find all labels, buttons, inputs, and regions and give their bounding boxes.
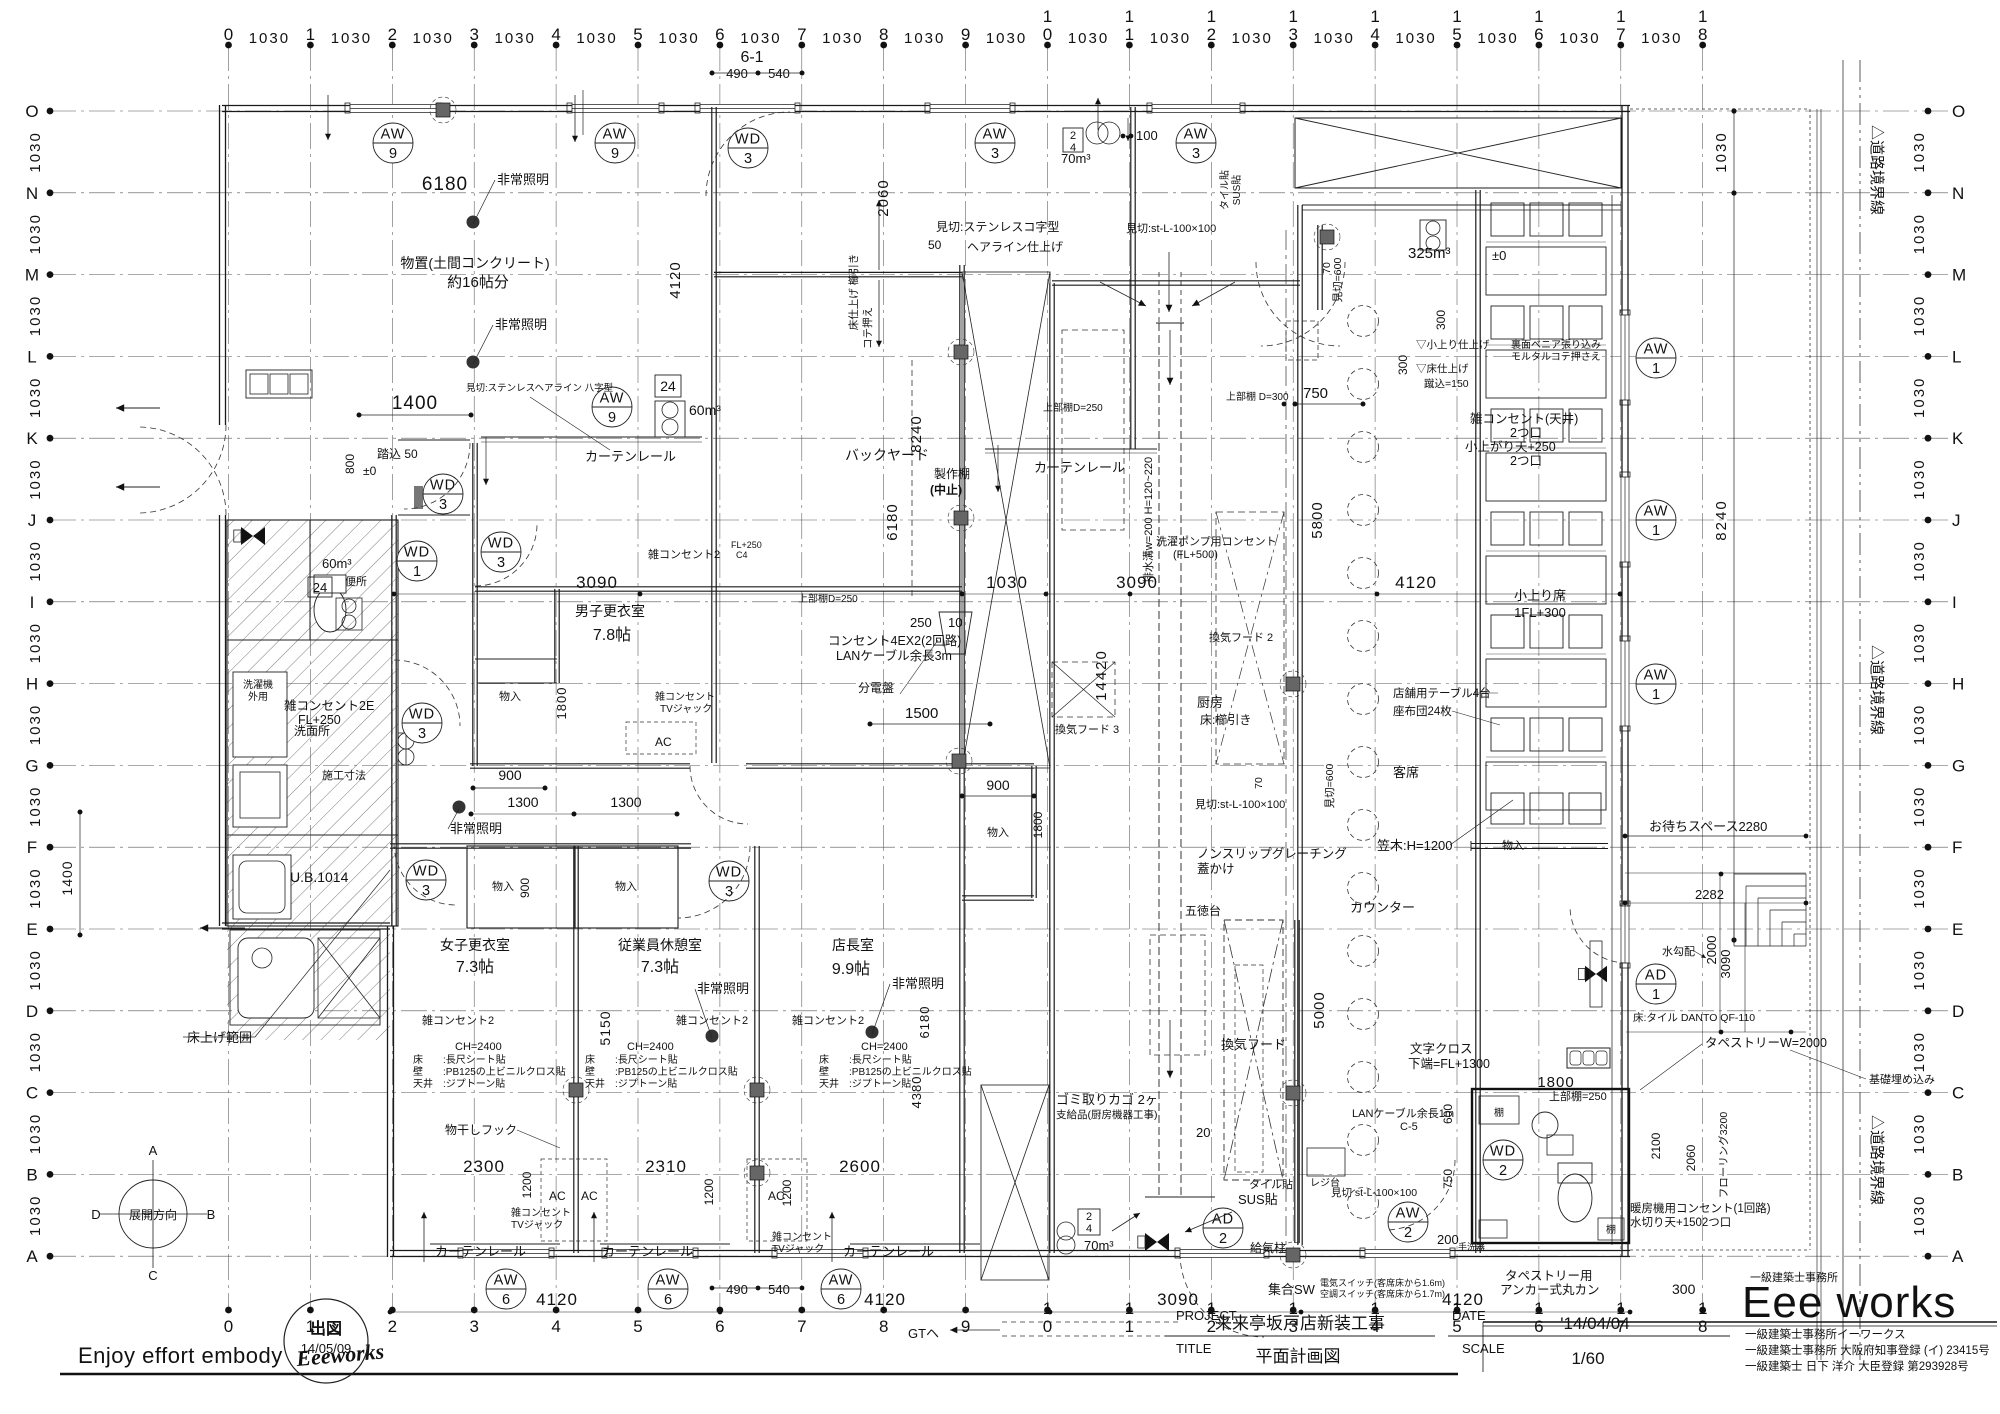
展開方向 compass	[91, 1143, 215, 1283]
svg-text:4120: 4120	[536, 1290, 578, 1309]
svg-text:4380: 4380	[909, 1076, 924, 1109]
footer left: Enjoy effort embody + stamp	[60, 1299, 1458, 1383]
svg-text:2: 2	[1070, 130, 1076, 142]
svg-text:フローリング3200: フローリング3200	[1717, 1112, 1730, 1199]
svg-text:4120: 4120	[1442, 1290, 1484, 1309]
svg-text:250: 250	[910, 615, 932, 630]
interior walls	[390, 107, 1480, 1253]
svg-text:雑コンセント(天井): 雑コンセント(天井)	[1470, 411, 1578, 426]
svg-text:1030: 1030	[986, 573, 1028, 592]
svg-text::ジプトーン貼: :ジプトーン貼	[443, 1077, 505, 1090]
svg-text:1030: 1030	[249, 30, 290, 47]
symbol AW9	[595, 123, 635, 163]
svg-text:2600: 2600	[839, 1157, 881, 1176]
svg-text:2310: 2310	[645, 1157, 687, 1176]
svg-text:1030: 1030	[413, 30, 454, 47]
svg-text:1200: 1200	[702, 1178, 716, 1205]
svg-text:8240: 8240	[908, 415, 925, 452]
svg-text:0: 0	[1043, 25, 1052, 44]
svg-text:WD: WD	[488, 536, 514, 552]
svg-text:AW: AW	[656, 1273, 681, 1289]
vent circles washroom wall	[398, 733, 414, 749]
svg-text:3: 3	[418, 726, 426, 742]
svg-text:6: 6	[1534, 25, 1543, 44]
svg-text:O: O	[1952, 102, 1965, 121]
svg-text:上部棚D=250: 上部棚D=250	[1043, 401, 1103, 414]
symbol WD3	[423, 474, 463, 514]
svg-text::PB125の上ビニルクロス貼: :PB125の上ビニルクロス貼	[615, 1065, 738, 1078]
svg-text:1030: 1030	[27, 867, 44, 908]
svg-text:床: 床	[413, 1053, 423, 1066]
svg-text:来来亭坂戸店新装工事: 来来亭坂戸店新装工事	[1215, 1314, 1385, 1333]
svg-text:14420: 14420	[1093, 649, 1110, 701]
svg-text::長尺シート貼: :長尺シート貼	[615, 1053, 678, 1066]
svg-text:見切=600: 見切=600	[1332, 258, 1344, 303]
svg-text:1030: 1030	[1641, 30, 1682, 47]
svg-text:1030: 1030	[27, 704, 44, 745]
svg-text:6180: 6180	[917, 1006, 932, 1039]
symbol WD3	[406, 860, 446, 900]
entrance top right with X canopy	[1100, 118, 1621, 808]
svg-text:1: 1	[306, 25, 315, 44]
svg-text:従業員休憩室: 従業員休憩室	[618, 937, 702, 953]
svg-text:100: 100	[1136, 128, 1158, 143]
svg-text:1500: 1500	[905, 705, 938, 722]
svg-text::ジプトーン貼: :ジプトーン貼	[849, 1077, 911, 1090]
svg-text:20: 20	[1196, 1125, 1210, 1140]
svg-text:1FL+300: 1FL+300	[1514, 605, 1566, 620]
svg-text:天井: 天井	[413, 1077, 433, 1090]
svg-text:換気フード 3: 換気フード 3	[1055, 722, 1119, 736]
svg-text:E: E	[1952, 920, 1963, 939]
svg-text:物入: 物入	[499, 689, 521, 703]
svg-text:24: 24	[313, 580, 327, 595]
svg-text:3: 3	[725, 884, 733, 900]
svg-text:70: 70	[1253, 777, 1265, 789]
svg-text:AC: AC	[655, 735, 672, 749]
svg-text:AW: AW	[381, 127, 406, 143]
svg-text:SUS貼: SUS貼	[1230, 175, 1243, 206]
svg-text:5: 5	[1452, 25, 1461, 44]
svg-text:便所: 便所	[345, 575, 367, 588]
kitchen strip	[912, 272, 1379, 1280]
svg-text:蓋かけ: 蓋かけ	[1197, 862, 1235, 876]
vent box 24-60m3 (storeroom)	[655, 375, 681, 397]
svg-text:蹴込=150: 蹴込=150	[1424, 377, 1469, 390]
svg-text:集合SW: 集合SW	[1268, 1282, 1316, 1297]
svg-text:540: 540	[768, 1282, 790, 1297]
svg-text:A: A	[149, 1143, 158, 1158]
svg-text:9: 9	[961, 1317, 970, 1336]
svg-text:N: N	[1952, 184, 1964, 203]
svg-text:DATE: DATE	[1452, 1308, 1486, 1323]
damper symbol right side	[1578, 966, 1607, 982]
svg-text:TVジャック: TVジャック	[772, 1243, 824, 1255]
svg-text:暖房機用コンセント(1回路): 暖房機用コンセント(1回路)	[1630, 1201, 1771, 1215]
svg-text:壁: 壁	[585, 1065, 595, 1078]
symbol AW6	[486, 1269, 526, 1309]
svg-text:見切:ステンレスコ字型: 見切:ステンレスコ字型	[936, 219, 1059, 234]
svg-text:WD: WD	[413, 864, 439, 880]
svg-text:水切り天+1502つ口: 水切り天+1502つ口	[1630, 1216, 1731, 1229]
svg-text:1: 1	[1125, 25, 1134, 44]
svg-text:H: H	[1952, 675, 1964, 694]
svg-text:Enjoy effort embody: Enjoy effort embody	[78, 1343, 283, 1368]
svg-text:4: 4	[551, 1317, 560, 1336]
svg-text:CH=2400: CH=2400	[455, 1041, 502, 1053]
svg-text:1030: 1030	[1395, 30, 1436, 47]
svg-text:C: C	[26, 1084, 38, 1103]
svg-text:0: 0	[224, 25, 233, 44]
svg-text:F: F	[1952, 838, 1962, 857]
svg-text:H: H	[26, 675, 38, 694]
symbol WD3	[402, 703, 442, 743]
svg-text:2つ口: 2つ口	[1510, 454, 1542, 468]
svg-text:下端=FL+1300: 下端=FL+1300	[1408, 1057, 1490, 1071]
svg-text:200: 200	[1437, 1232, 1459, 1247]
svg-text:900: 900	[986, 777, 1010, 793]
svg-text:6180: 6180	[884, 503, 901, 540]
svg-text:1030: 1030	[1911, 867, 1928, 908]
svg-text:1300: 1300	[507, 794, 538, 810]
svg-text:非常照明: 非常照明	[892, 976, 944, 991]
svg-text:カーテンレール: カーテンレール	[1034, 460, 1125, 475]
svg-text:5800: 5800	[1309, 501, 1326, 538]
svg-text:AW: AW	[829, 1273, 854, 1289]
svg-text:Eee works: Eee works	[1742, 1278, 1956, 1327]
svg-text:非常照明: 非常照明	[497, 172, 549, 187]
hatched wall plugs	[430, 97, 1340, 1268]
svg-text:60m³: 60m³	[322, 556, 352, 571]
svg-text:A: A	[26, 1247, 38, 1266]
svg-text:1030: 1030	[27, 458, 44, 499]
svg-text:C-5: C-5	[1400, 1121, 1418, 1133]
svg-text:2: 2	[1404, 1225, 1412, 1241]
svg-text:物置(土間コンクリート): 物置(土間コンクリート)	[400, 255, 549, 271]
svg-text:1030: 1030	[27, 1031, 44, 1072]
svg-text:1: 1	[1652, 361, 1660, 377]
svg-text:一級建築士事務所 大阪府知事登録 (イ) 23415号: 一級建築士事務所 大阪府知事登録 (イ) 23415号	[1745, 1343, 1990, 1357]
svg-text:1: 1	[1652, 987, 1660, 1003]
svg-text:2060: 2060	[875, 179, 892, 216]
symbol AW6	[648, 1269, 688, 1309]
svg-text:2100: 2100	[1649, 1132, 1663, 1159]
svg-text:70m³: 70m³	[1084, 1238, 1114, 1253]
svg-text:50: 50	[928, 238, 942, 252]
svg-text:製作棚: 製作棚	[934, 466, 970, 481]
svg-text:325m³: 325m³	[1408, 245, 1451, 262]
svg-text:座布団24枚: 座布団24枚	[1393, 704, 1452, 718]
svg-text:△道路境界線: △道路境界線	[1868, 645, 1886, 735]
svg-text:モルタルコテ押さえ: モルタルコテ押さえ	[1511, 350, 1601, 363]
svg-text:1030: 1030	[27, 1113, 44, 1154]
svg-text:1: 1	[1125, 1299, 1134, 1318]
svg-text:展開方向: 展開方向	[129, 1207, 177, 1222]
svg-text:750: 750	[1441, 1169, 1455, 1189]
svg-text:文字クロス: 文字クロス	[1410, 1041, 1473, 1056]
svg-text:3: 3	[422, 883, 430, 899]
svg-text:3: 3	[439, 497, 447, 513]
entry vestibule jamb	[414, 486, 423, 509]
svg-text:水勾配: 水勾配	[1662, 945, 1695, 958]
svg-text:▽床仕上げ: ▽床仕上げ	[1416, 362, 1469, 375]
svg-text:GTヘ: GTヘ	[908, 1326, 939, 1341]
svg-text:(FL+500): (FL+500)	[1173, 549, 1218, 561]
svg-text:4: 4	[1086, 1223, 1092, 1235]
svg-text:I: I	[30, 593, 35, 612]
svg-text:2300: 2300	[463, 1157, 505, 1176]
svg-text:CH=2400: CH=2400	[861, 1041, 908, 1053]
svg-text:1: 1	[413, 564, 421, 580]
svg-text:2060: 2060	[1684, 1144, 1698, 1171]
svg-text:'14/04/04: '14/04/04	[1560, 1314, 1629, 1333]
svg-text:M: M	[1952, 266, 1966, 285]
svg-text:雑コンセント: 雑コンセント	[772, 1230, 832, 1243]
svg-text:見切:st-L-100×100: 見切:st-L-100×100	[1195, 798, 1285, 811]
svg-text:CH=2400: CH=2400	[627, 1041, 674, 1053]
svg-text:14/05/09: 14/05/09	[301, 1341, 352, 1356]
svg-text:1030: 1030	[1911, 1195, 1928, 1236]
svg-text:800: 800	[343, 454, 357, 474]
svg-text:1: 1	[1125, 1317, 1134, 1336]
svg-text:1030: 1030	[1911, 295, 1928, 336]
damper symbol left wall	[234, 527, 265, 545]
svg-text:3090: 3090	[1718, 950, 1733, 979]
svg-text:B: B	[1952, 1165, 1963, 1184]
symbol WD2	[1483, 1140, 1523, 1180]
symbol AW2	[1388, 1202, 1428, 1242]
svg-text:WD: WD	[1490, 1144, 1516, 1160]
svg-text:D: D	[91, 1207, 100, 1222]
svg-text:1200: 1200	[520, 1171, 534, 1198]
svg-text:6: 6	[715, 1317, 724, 1336]
svg-text:アンカー式丸カン: アンカー式丸カン	[1500, 1283, 1600, 1297]
svg-text:K: K	[1952, 429, 1964, 448]
svg-text:裏面ベニア張り込み: 裏面ベニア張り込み	[1511, 338, 1601, 351]
svg-text:2: 2	[1219, 1231, 1227, 1247]
svg-text:5: 5	[633, 25, 642, 44]
right porch and slope steps	[1623, 109, 1821, 1360]
svg-text:C: C	[1952, 1084, 1964, 1103]
svg-text:物入: 物入	[492, 879, 514, 893]
svg-text:2282: 2282	[1695, 887, 1724, 902]
svg-text:6180: 6180	[422, 174, 468, 195]
svg-text:1030: 1030	[27, 131, 44, 172]
svg-text:6-1: 6-1	[740, 49, 763, 66]
svg-text:1030: 1030	[658, 30, 699, 47]
svg-text:900: 900	[498, 767, 522, 783]
svg-text:±0: ±0	[1492, 248, 1506, 263]
window operation arrows top wall	[327, 95, 329, 140]
svg-text:1: 1	[1370, 7, 1379, 26]
svg-text:B: B	[26, 1165, 37, 1184]
svg-text:B: B	[207, 1207, 216, 1222]
svg-text:笠木:H=1200: 笠木:H=1200	[1377, 838, 1453, 853]
svg-text:施工寸法: 施工寸法	[322, 768, 366, 782]
svg-text:0: 0	[1043, 1317, 1052, 1336]
svg-text:物入: 物入	[1502, 838, 1524, 852]
svg-text:1: 1	[1652, 687, 1660, 703]
svg-text:60m³: 60m³	[689, 402, 721, 418]
svg-text:1030: 1030	[1232, 30, 1273, 47]
svg-text:L: L	[1952, 347, 1961, 366]
svg-text:小上がり天+250: 小上がり天+250	[1465, 439, 1556, 454]
svg-text:タイル貼: タイル貼	[1218, 170, 1231, 210]
svg-text:1030: 1030	[986, 30, 1027, 47]
svg-text:70m³: 70m³	[1061, 151, 1091, 166]
svg-text:1030: 1030	[822, 30, 863, 47]
svg-text:9: 9	[961, 25, 970, 44]
svg-text:1: 1	[1652, 523, 1660, 539]
svg-text:AW: AW	[603, 127, 628, 143]
svg-text:見切 st-L-100×100: 見切 st-L-100×100	[1331, 1187, 1417, 1199]
svg-text:ノンスリップグレーチング: ノンスリップグレーチング	[1197, 847, 1347, 861]
right inner dim 1030/8240	[1733, 108, 1735, 940]
svg-text:非常照明: 非常照明	[697, 981, 749, 996]
svg-text:電気スイッチ(客席床から1.6m): 電気スイッチ(客席床から1.6m)	[1320, 1277, 1445, 1288]
svg-text:1030: 1030	[1911, 377, 1928, 418]
svg-text:TVジャック: TVジャック	[660, 703, 712, 715]
svg-text:SCALE: SCALE	[1462, 1341, 1505, 1356]
svg-text:1: 1	[1698, 1299, 1707, 1318]
svg-text:300: 300	[1434, 310, 1448, 330]
svg-text:LANケーブル余長1m: LANケーブル余長1m	[1352, 1106, 1454, 1120]
svg-text:A: A	[1952, 1247, 1964, 1266]
svg-text:約16帖分: 約16帖分	[447, 274, 509, 291]
svg-text:WD: WD	[430, 478, 456, 494]
svg-text:1030: 1030	[1911, 1113, 1928, 1154]
svg-text:AW: AW	[1396, 1206, 1421, 1222]
svg-text:AW: AW	[983, 127, 1008, 143]
door swing arcs	[138, 112, 1627, 1337]
svg-text:9: 9	[608, 410, 616, 426]
svg-text:洗濯ポンプ用コンセント: 洗濯ポンプ用コンセント	[1156, 535, 1277, 548]
svg-text:5: 5	[633, 1317, 642, 1336]
svg-text:N: N	[26, 184, 38, 203]
svg-text:AC: AC	[768, 1189, 785, 1203]
svg-text:LANケーブル余長3m: LANケーブル余長3m	[836, 648, 952, 663]
svg-text:4120: 4120	[667, 261, 684, 298]
svg-text:踏込 50: 踏込 50	[377, 447, 418, 461]
svg-text:女子更衣室: 女子更衣室	[440, 937, 510, 953]
outer walls with window symbols	[220, 103, 1631, 1258]
svg-text:1: 1	[1043, 1299, 1052, 1318]
svg-text:1030: 1030	[1911, 1031, 1928, 1072]
svg-text:カーテンレール: カーテンレール	[602, 1244, 693, 1259]
svg-text:壁: 壁	[819, 1065, 829, 1078]
svg-text:外用: 外用	[248, 691, 268, 703]
svg-text:タペストリー用: タペストリー用	[1505, 1269, 1593, 1283]
symbol AW9	[373, 123, 413, 163]
svg-text:非常照明: 非常照明	[495, 317, 547, 332]
svg-text:1030: 1030	[27, 377, 44, 418]
symbol AW3	[975, 123, 1015, 163]
svg-text:2000: 2000	[1704, 936, 1719, 965]
svg-text:雑コンセント2: 雑コンセント2	[422, 1013, 494, 1027]
svg-text:給気柱: 給気柱	[1250, 1240, 1286, 1255]
svg-text:2: 2	[388, 1317, 397, 1336]
svg-text:1030: 1030	[27, 949, 44, 990]
svg-text:上部棚=250: 上部棚=250	[1549, 1089, 1607, 1103]
svg-text:1: 1	[1043, 7, 1052, 26]
svg-text:8: 8	[1698, 1317, 1707, 1336]
svg-text:4: 4	[1370, 25, 1379, 44]
svg-text:1800: 1800	[554, 687, 569, 720]
svg-text:雑コンセント2: 雑コンセント2	[648, 547, 720, 561]
svg-text:2: 2	[1207, 25, 1216, 44]
svg-text:9: 9	[611, 146, 619, 162]
svg-text:C: C	[148, 1268, 157, 1283]
svg-text:カーテンレール: カーテンレール	[435, 1244, 526, 1259]
svg-text:1030: 1030	[1911, 786, 1928, 827]
svg-text:1: 1	[1534, 1299, 1543, 1318]
tatami seating tables	[1471, 195, 1612, 1245]
svg-text:2: 2	[1499, 1163, 1507, 1179]
svg-text:見切:ステンレスヘアライン 八字型: 見切:ステンレスヘアライン 八字型	[466, 382, 614, 394]
svg-text:床: 床	[819, 1053, 829, 1066]
svg-text:M: M	[25, 266, 39, 285]
svg-text:物入: 物入	[615, 879, 637, 893]
svg-text:8240: 8240	[1713, 499, 1730, 540]
svg-text:3090: 3090	[1116, 573, 1158, 592]
svg-text:E: E	[26, 920, 37, 939]
svg-text:平面計画図: 平面計画図	[1256, 1347, 1341, 1366]
svg-text:3: 3	[1192, 146, 1200, 162]
svg-text:70: 70	[1321, 262, 1333, 274]
symbol WD3	[481, 532, 521, 572]
svg-text:WD: WD	[735, 132, 761, 148]
svg-text:4120: 4120	[1395, 573, 1437, 592]
svg-text:五徳台: 五徳台	[1185, 903, 1221, 918]
svg-text:AD: AD	[1645, 968, 1667, 984]
svg-text:壁: 壁	[413, 1065, 423, 1078]
svg-text:雑コンセント2: 雑コンセント2	[792, 1013, 864, 1027]
svg-text:SUS貼: SUS貼	[1238, 1192, 1278, 1207]
svg-text:小上り席: 小上り席	[1514, 588, 1566, 603]
svg-text:1/60: 1/60	[1571, 1349, 1604, 1368]
svg-text:1: 1	[1288, 7, 1297, 26]
svg-text:6: 6	[664, 1292, 672, 1308]
bath block with hatch	[227, 520, 398, 1040]
svg-text:1: 1	[1125, 7, 1134, 26]
svg-text:男子更衣室: 男子更衣室	[575, 603, 645, 619]
svg-text:換気フード 2: 換気フード 2	[1209, 630, 1273, 644]
svg-text:一級建築士 日下 洋介 大臣登録 第293928号: 一級建築士 日下 洋介 大臣登録 第293928号	[1745, 1359, 1969, 1373]
svg-text:9: 9	[389, 146, 397, 162]
symbol AW1	[1636, 500, 1676, 540]
svg-text:1030: 1030	[1911, 131, 1928, 172]
symbol AW9	[592, 387, 632, 427]
svg-text:1: 1	[1452, 7, 1461, 26]
symbol WD1	[397, 541, 437, 581]
svg-text:TITLE: TITLE	[1176, 1341, 1212, 1356]
svg-text:AW: AW	[1644, 504, 1669, 520]
svg-text:床: 床	[585, 1053, 595, 1066]
svg-text:1400: 1400	[392, 393, 438, 414]
svg-text:▽小上り仕上げ: ▽小上り仕上げ	[1416, 338, 1490, 351]
svg-text:空調スイッチ(客席床から1.7m): 空調スイッチ(客席床から1.7m)	[1320, 1288, 1445, 1299]
svg-text:TVジャック: TVジャック	[511, 1219, 563, 1231]
svg-text:WD: WD	[409, 707, 435, 723]
svg-text:750: 750	[1303, 385, 1328, 402]
svg-text:1030: 1030	[1911, 540, 1928, 581]
svg-text:10: 10	[948, 615, 962, 630]
svg-text:7: 7	[797, 25, 806, 44]
svg-text:8: 8	[1698, 25, 1707, 44]
svg-text:L: L	[27, 347, 36, 366]
svg-text:D: D	[26, 1002, 38, 1021]
svg-text:24: 24	[660, 378, 676, 394]
